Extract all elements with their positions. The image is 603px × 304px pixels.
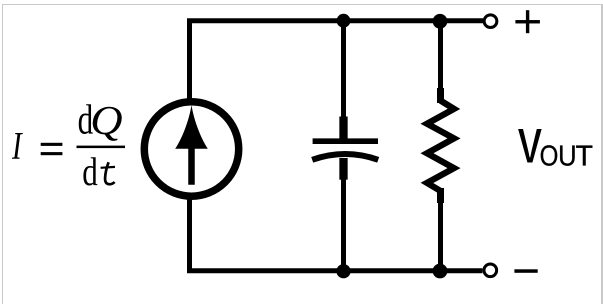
terminal - open circle: [484, 264, 497, 277]
wire resistor branch top: [438, 18, 443, 92]
svg-text:O: O: [540, 140, 559, 172]
minus sign bar: [514, 269, 537, 273]
svg-text:U: U: [558, 139, 576, 172]
wire bottom rail: [190, 199, 483, 270]
label equation denominator t stem: [105, 162, 115, 184]
wire top rail: [190, 21, 484, 99]
resistor R1 bottom lead stub: [437, 188, 444, 203]
label equation denominator t crossbar: [101, 166, 115, 169]
current source I1 arrow stem: [188, 138, 195, 185]
plus sign horizontal bar: [515, 20, 540, 23]
current source I1 arrow head: [175, 105, 208, 149]
capacitor C1 bottom lead stub: [339, 158, 347, 180]
label equation equals top bar: [41, 143, 63, 146]
junction dot bottom resistor node: [433, 264, 448, 279]
current source I1 circle: [144, 102, 238, 196]
resistor R1 top lead stub: [437, 88, 444, 103]
svg-text:Q: Q: [90, 98, 122, 143]
svg-text:d: d: [82, 149, 98, 194]
plus sign vertical bar: [526, 10, 529, 33]
wire resistor branch bottom: [438, 199, 443, 272]
capacitor C1 bottom curved plate: [312, 154, 378, 160]
svg-text:I: I: [11, 124, 23, 167]
junction dot bottom capacitor node: [336, 264, 350, 278]
junction dot top capacitor node: [337, 14, 351, 28]
capacitor C1 top lead stub: [339, 117, 347, 141]
label equation equals bottom bar: [41, 152, 63, 155]
wire capacitor branch top: [341, 18, 346, 138]
label equation fraction bar: [77, 146, 126, 149]
resistor R1 zigzag body: [427, 101, 454, 191]
junction dot top resistor node: [433, 14, 448, 29]
capacitor C1 top plate: [313, 138, 378, 144]
wire capacitor branch bottom: [341, 178, 346, 272]
terminal + open circle: [484, 15, 497, 28]
svg-text:T: T: [575, 141, 593, 173]
